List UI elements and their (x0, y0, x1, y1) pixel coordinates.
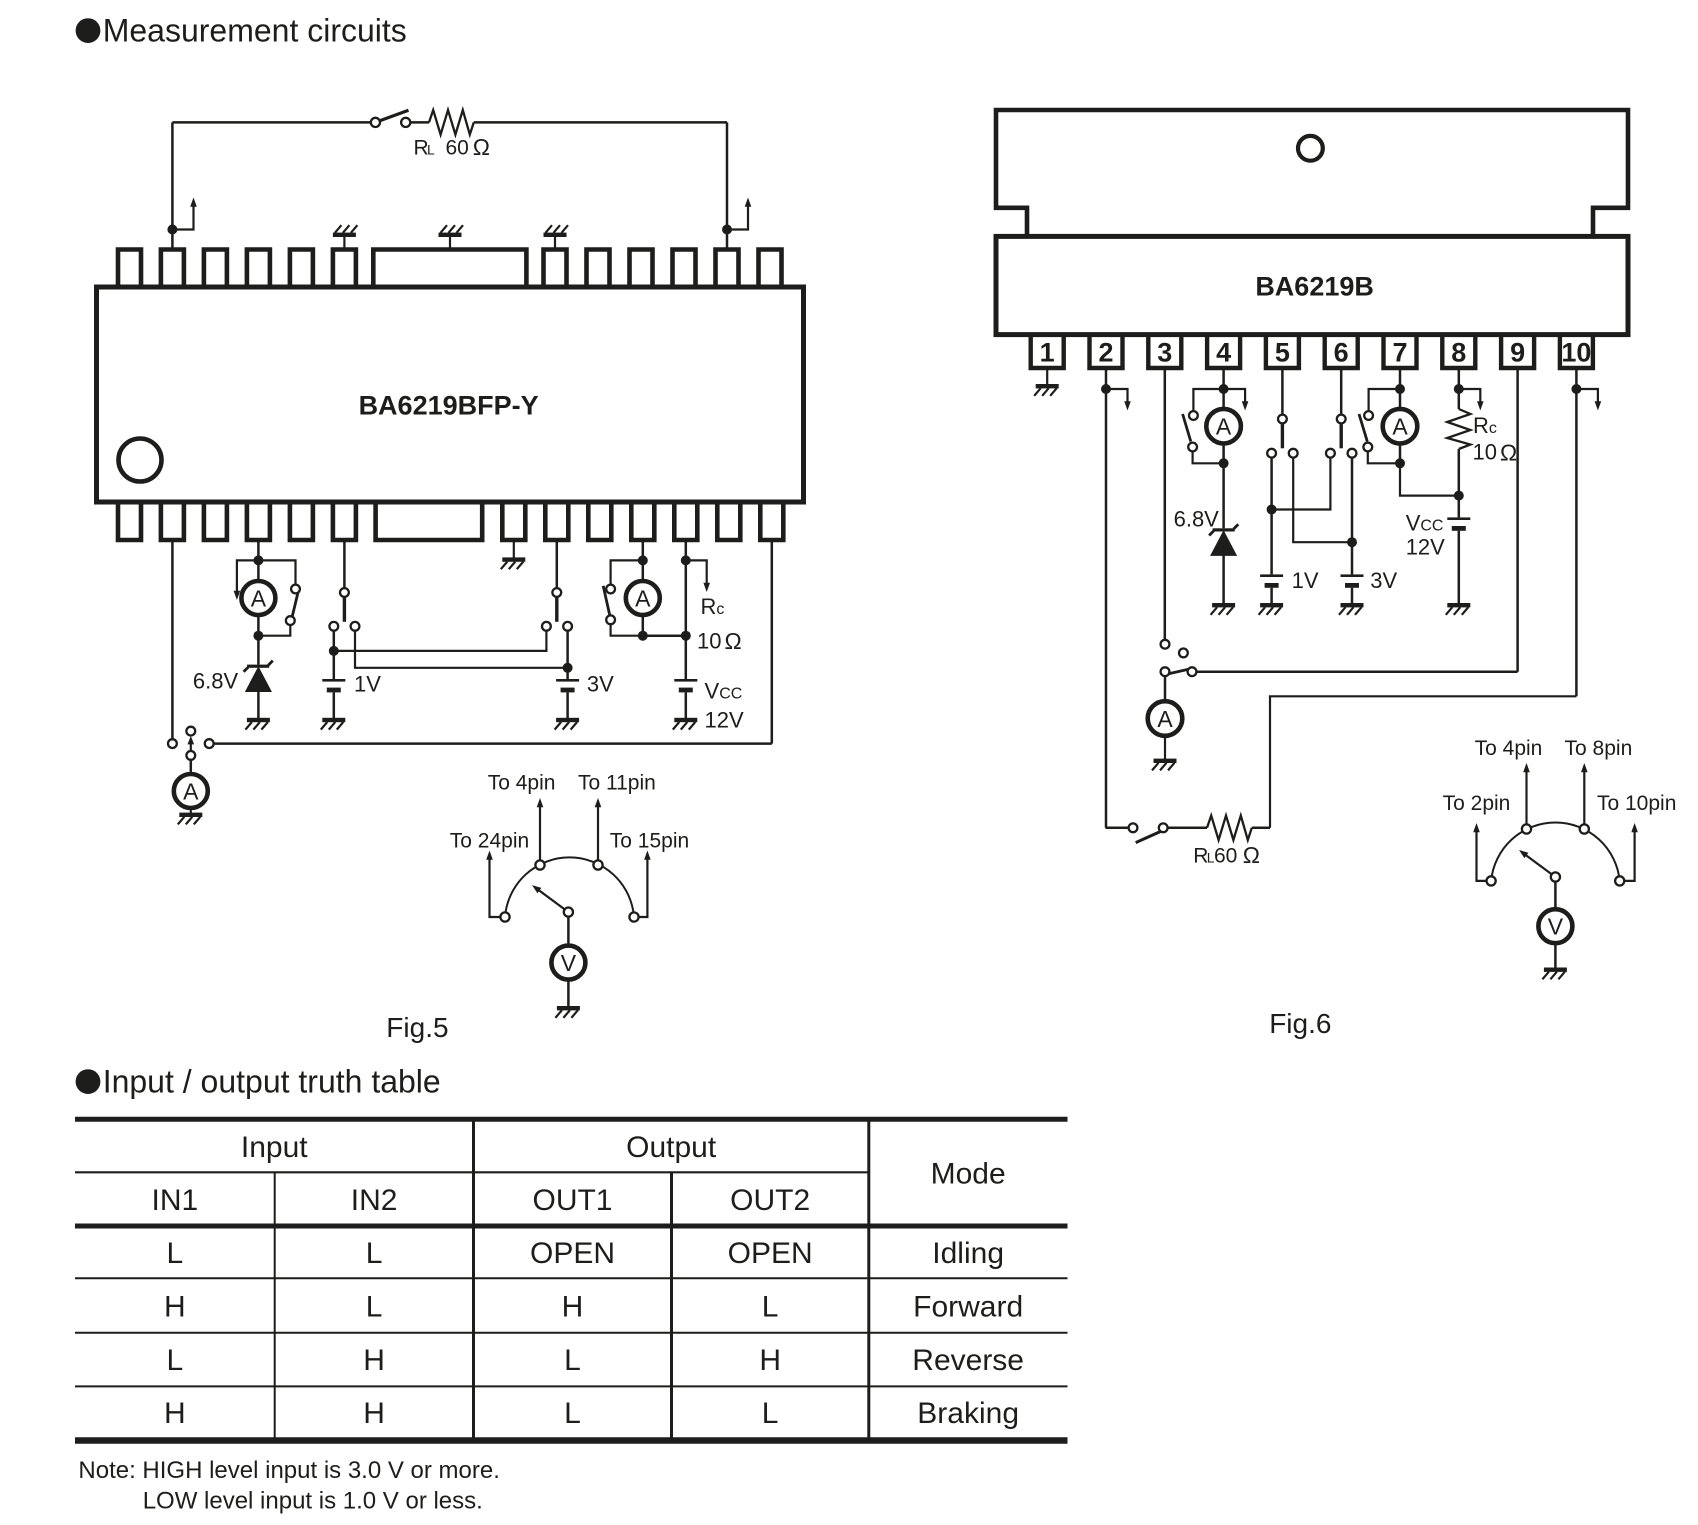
label To 15pin (610, 830, 689, 853)
svg-text:H: H (164, 1397, 186, 1430)
svg-text:1V: 1V (1292, 568, 1319, 593)
ground on U1 top pin 6 (333, 225, 358, 249)
label To 24pin (450, 830, 529, 853)
switch S5 (IN2 level select) (542, 588, 572, 631)
wire U1 pin 20 bottom (685, 540, 688, 560)
battery B5 3V (Fig.6) (1341, 542, 1364, 588)
ground below zener D2 (1211, 555, 1236, 615)
IC U2 BA6219B heatsink tab (996, 110, 1628, 236)
wire U2 pin 10 down (1575, 368, 1578, 696)
note line 2 (143, 1488, 483, 1515)
junction node pin 4 (1219, 384, 1229, 394)
truth table header Mode (931, 1158, 1006, 1191)
battery B2 3V (556, 668, 579, 693)
rotary selector SW2 arc (Fig.6) (1491, 823, 1620, 881)
svg-text:L: L (762, 1290, 779, 1323)
wire Rc to Vcc battery (1458, 449, 1461, 517)
wire long bottom rail (selector to pin 25) (214, 742, 772, 745)
section title: Input / output truth table (76, 1064, 441, 1100)
svg-text:L: L (366, 1237, 383, 1270)
ammeter A1 (174, 774, 208, 808)
label 10 ohm (Fig.5) (697, 628, 742, 654)
ground below battery B4 (1259, 588, 1284, 615)
svg-text:Output: Output (626, 1131, 717, 1164)
svg-text:L: L (564, 1344, 581, 1377)
battery B6 Vcc 12V (Fig.6) (1447, 517, 1470, 530)
svg-text:4: 4 (1216, 338, 1231, 368)
ground below voltmeter V1 (555, 980, 580, 1018)
current arrow at pin 4 (1224, 389, 1249, 411)
svg-text:3V: 3V (587, 672, 614, 697)
wire S8 left throw down (1270, 458, 1273, 510)
svg-text:IN2: IN2 (351, 1184, 398, 1217)
svg-text:1V: 1V (354, 672, 381, 697)
svg-text:Fig.5: Fig.5 (386, 1012, 448, 1043)
bypass switch S3 across A2 (258, 560, 300, 635)
SW1 contact to 4pin (535, 798, 544, 870)
truth table header OUT2 (730, 1184, 810, 1217)
junction node 1V rail (329, 646, 339, 656)
wire RL to pin 10 rail (1252, 827, 1270, 830)
svg-text:Input / output truth table: Input / output truth table (103, 1064, 441, 1100)
current arrow at pin 10 (1576, 389, 1601, 411)
truth table bottom border (75, 1437, 1068, 1444)
svg-text:BA6219BFP-Y: BA6219BFP-Y (359, 391, 539, 421)
U1 pin-1 index circle (119, 439, 162, 482)
U1 bottom pin 3 (204, 501, 227, 540)
wire SW2 wiper to voltmeter V2 (1554, 882, 1557, 910)
svg-text:A: A (251, 585, 267, 611)
wire U2 pin 3 down (1164, 368, 1167, 640)
wire U2 pin 5 down (1281, 368, 1284, 415)
junction node A3 bottom (638, 631, 648, 641)
svg-text:L: L (167, 1344, 184, 1377)
svg-text:Forward: Forward (913, 1290, 1023, 1323)
caption Fig.5 (386, 1012, 448, 1043)
SW2 contact to 8pin (1580, 763, 1589, 834)
ground below battery B5 (1339, 588, 1364, 615)
svg-text:L: L (427, 141, 435, 157)
truth table header Input (241, 1131, 308, 1164)
label To 10pin (1597, 792, 1676, 815)
svg-text:12V: 12V (705, 708, 744, 733)
SW2 contact to 4pin (1522, 763, 1531, 834)
label Vcc (Fig.6) (1406, 510, 1444, 535)
truth table column line IN1/IN2 (274, 1172, 276, 1440)
svg-text:Idling: Idling (932, 1237, 1004, 1270)
label To 4pin (Fig.6) (1475, 737, 1543, 760)
SW2 contact to 10pin (1615, 823, 1638, 886)
U1 bottom center tab pin (376, 501, 483, 540)
svg-text:To 11pin: To 11pin (578, 772, 656, 795)
wire U1 pin 16 bottom (556, 540, 559, 588)
junction node pin 2 (1101, 384, 1111, 394)
bypass switch S6 across A3 (603, 560, 643, 635)
svg-text:L: L (564, 1397, 581, 1430)
svg-text:Note: HIGH level input is 3.0: Note: HIGH level input is 3.0 V or more. (78, 1457, 500, 1484)
wire S12 to RL resistor (1168, 827, 1207, 830)
svg-text:6.8V: 6.8V (1174, 507, 1220, 532)
truth table row line 3 (75, 1385, 1068, 1387)
U1 top pin 5 (290, 250, 313, 289)
U1 bottom pin 9 (545, 501, 568, 540)
wire 1V node to S9 left throw (1276, 458, 1331, 510)
U2 pin box 4 (1207, 336, 1240, 368)
label RL 60ohm (Fig.6) (1193, 842, 1260, 868)
U2 pin box 9 (1501, 336, 1534, 368)
SW1 contact to 15pin (629, 851, 650, 922)
svg-text:To 24pin: To 24pin (450, 830, 529, 853)
svg-text:Rc: Rc (701, 594, 725, 619)
wire SW1 wiper to voltmeter V1 (567, 917, 570, 946)
wire U1 pin 25 bottom vertical (771, 540, 774, 744)
ground below zener D1 (245, 691, 270, 729)
wire U2 pin 8 down (1458, 368, 1461, 409)
svg-text:12V: 12V (1406, 534, 1445, 559)
current arrow Rc branch (686, 560, 710, 592)
svg-text:Rc: Rc (1473, 413, 1497, 438)
svg-text:Mode: Mode (931, 1158, 1006, 1191)
U1 top center tab pin (373, 250, 526, 289)
svg-text:3: 3 (1157, 338, 1172, 368)
U1 bottom pin 13 (717, 501, 740, 540)
label To 2pin (1443, 792, 1511, 815)
SW1 contact to 24pin (486, 851, 509, 922)
wire A3 bottom to Vcc rail (643, 634, 686, 637)
svg-text:To 4pin: To 4pin (488, 772, 556, 795)
svg-text:A: A (1157, 706, 1173, 732)
zener diode D2 6.8V (1209, 463, 1238, 555)
voltmeter V1 (551, 946, 585, 980)
truth table column line Input/Output (472, 1119, 475, 1440)
current-probe arrow at pin 2 top (172, 198, 196, 230)
wire U1 pin 4 bottom (257, 540, 260, 560)
ground on U2 pin 1 (1034, 368, 1059, 396)
junction node pin20/Rc (681, 555, 691, 565)
svg-text:1: 1 (1040, 338, 1055, 368)
label To 8pin (1565, 737, 1633, 760)
ground on U1 top tab (439, 225, 464, 249)
U2 pin box 2 (1090, 336, 1123, 368)
junction node at U1 pin 2 top (167, 225, 177, 235)
svg-text:OPEN: OPEN (530, 1237, 615, 1270)
zener diode D1 6.8V (244, 636, 273, 692)
U2 tab mounting hole (1298, 136, 1323, 161)
svg-text:A: A (183, 778, 199, 804)
svg-text:6.8V: 6.8V (193, 669, 239, 694)
svg-text:10: 10 (1561, 338, 1591, 368)
label 3V (Fig.6) (1370, 568, 1397, 593)
wire 1V node to 3V switch left throw (338, 631, 547, 651)
note line 1 (78, 1457, 500, 1484)
svg-text:6: 6 (1334, 338, 1349, 368)
U1 bottom pin 5 (290, 501, 313, 540)
label RL 60ohm (Fig.5) (414, 134, 491, 160)
svg-text:Ω: Ω (1500, 439, 1517, 465)
wire Fig.5 left rail vertical (171, 122, 174, 249)
U2 pin box 6 (1325, 336, 1358, 368)
wire S4 right throw to 3V node (355, 631, 564, 668)
truth table header Output (626, 1131, 717, 1164)
junction node Vcc rail / A3 (681, 631, 691, 641)
svg-text:To 15pin: To 15pin (610, 830, 689, 853)
switch S12 (load switch Fig.6) (1129, 823, 1168, 842)
junction node 3V rail (563, 663, 573, 673)
label 6.8V (D2) (1174, 507, 1220, 532)
SW1 wiper blade with arrow (532, 885, 573, 917)
ground below battery B6 (1446, 531, 1471, 615)
section title: Measurement circuits (76, 13, 407, 49)
U1 bottom pin 6 (333, 501, 356, 540)
ammeter A2 (241, 560, 275, 635)
label 3V (587, 672, 614, 697)
junction node A2 bottom (253, 631, 263, 641)
wire A5 bottom to Rc rail (1400, 463, 1459, 495)
label 1V (Fig.6) (1292, 568, 1319, 593)
svg-text:OUT1: OUT1 (532, 1184, 612, 1217)
current arrow at pin 2 (1106, 389, 1131, 411)
wire Fig.5 right rail vertical (726, 122, 729, 249)
junction node Rc/A5 (1454, 491, 1464, 501)
svg-text:H: H (164, 1290, 186, 1323)
wire S1 to RL (410, 121, 429, 124)
SW2 wiper blade with arrow (1519, 850, 1560, 882)
svg-text:H: H (562, 1290, 584, 1323)
resistor RL 60ohm (Fig.6) (1207, 816, 1252, 840)
svg-text:Ω: Ω (473, 134, 490, 160)
svg-text:Ω: Ω (725, 628, 742, 654)
U1 top pin 4 (247, 250, 270, 289)
wire S2 to ammeter A1 (190, 760, 193, 774)
svg-text:60: 60 (446, 136, 469, 159)
svg-text:10: 10 (1473, 440, 1497, 465)
U1 top pin 9 (587, 250, 610, 289)
label 1V (354, 672, 381, 697)
switch S4 (IN1 level select) (329, 588, 359, 631)
wire Fig.5 top rail left segment (172, 121, 371, 124)
bypass switch S7 across A4 (1183, 389, 1224, 463)
wire S4 left throw down (333, 631, 336, 651)
svg-text:3V: 3V (1370, 568, 1397, 593)
U2 pin box 10 (1560, 336, 1593, 368)
svg-text:Measurement circuits: Measurement circuits (103, 13, 407, 49)
resistor Rc 10ohm (Fig.6) (1447, 409, 1470, 449)
svg-text:A: A (635, 585, 651, 611)
truth table data row 1: L L OPEN OPEN Idling (167, 1237, 1005, 1270)
svg-text:Fig.6: Fig.6 (1269, 1008, 1331, 1039)
ammeter A5 (1383, 389, 1418, 463)
svg-text:Input: Input (241, 1131, 308, 1164)
U1 bottom pin 10 (588, 501, 611, 540)
ground below battery B3 (673, 692, 698, 729)
selector switch S2 (ammeter select) (168, 727, 214, 760)
wire S9 right throw down (1351, 458, 1354, 538)
svg-text:2: 2 (1098, 338, 1113, 368)
switch S8 (IN1 level select Fig.6) (1267, 415, 1297, 458)
label Rc (Fig.5) (701, 594, 725, 619)
wire S11 to ammeter A6 (1164, 676, 1167, 701)
ground below ammeter A1 (178, 808, 203, 824)
svg-text:L: L (167, 1237, 184, 1270)
ground below battery B1 (321, 692, 346, 729)
truth table column line Output/Mode (867, 1119, 870, 1440)
junction node pin 8 (1454, 384, 1464, 394)
U2 label BA6219B (1255, 272, 1374, 302)
IC U1 BA6219BFP-Y body (97, 287, 804, 502)
svg-text:Braking: Braking (917, 1397, 1019, 1430)
label To 4pin (Fig.5) (488, 772, 556, 795)
U1 top pin 1 (118, 250, 141, 289)
truth table header IN2 (351, 1184, 398, 1217)
svg-text:V: V (561, 950, 577, 976)
svg-text:H: H (759, 1344, 781, 1377)
junction node A4 bottom (1219, 458, 1229, 468)
current arrow into ammeter A2 (234, 560, 259, 600)
svg-text:60: 60 (1214, 844, 1237, 867)
U1 top pin 10 (630, 250, 653, 289)
ammeter A6 (1148, 701, 1183, 736)
junction node pin 7 (1395, 384, 1405, 394)
label Rc (Fig.6) (1473, 413, 1497, 438)
wire S8 right throw to 3V node (1293, 458, 1348, 543)
U2 pin box 8 (1442, 336, 1475, 368)
svg-text:8: 8 (1451, 338, 1466, 368)
current-probe arrow at pin 23 top (727, 198, 751, 230)
truth table row line 1 (75, 1277, 1068, 1279)
U1 top pin 6 (333, 250, 356, 289)
switch S9 (IN2 level select Fig.6) (1326, 415, 1356, 458)
U1 label BA6219BFP-Y (359, 391, 539, 421)
SW1 contact to 11pin (593, 798, 602, 870)
U1 bottom pin 11 (631, 501, 654, 540)
junction node at U1 pin 23 top (722, 225, 732, 235)
junction node 3V rail (Fig.6) (1347, 537, 1357, 547)
bypass switch S10 across A5 (1359, 389, 1400, 463)
ground on U1 top pin 8 (544, 225, 569, 249)
ammeter A3 (626, 560, 660, 635)
U1 bottom pin 4 (247, 501, 270, 540)
ground below voltmeter V2 (1542, 943, 1567, 979)
junction node 1V rail (Fig.6) (1267, 505, 1277, 515)
wire pin 9 rail to selector S11 (1196, 670, 1517, 673)
svg-text:OUT2: OUT2 (730, 1184, 810, 1217)
wire U2 pin 7 down (1399, 368, 1402, 389)
wire pin 10 rail to RL branch (1270, 696, 1576, 828)
junction node pin 10 (1571, 384, 1581, 394)
wire U1 pin 6 bottom (343, 540, 346, 588)
SW2 contact to 2pin (1473, 823, 1496, 886)
truth table data row 2: H L H L Forward (164, 1290, 1023, 1323)
wire U2 pin 2 down (1105, 368, 1108, 828)
svg-text:VCC: VCC (705, 679, 743, 704)
truth table header separator line (75, 1171, 869, 1173)
battery B3 Vcc 12V (674, 679, 697, 692)
svg-text:To 2pin: To 2pin (1443, 792, 1511, 815)
junction node pin4/A2 (253, 555, 263, 565)
U2 pin box 7 (1384, 336, 1417, 368)
wire S5 right throw down (566, 631, 569, 664)
U2 pin box 3 (1148, 336, 1181, 368)
wire U2 pin 6 down (1340, 368, 1343, 415)
svg-text:IN1: IN1 (152, 1184, 199, 1217)
truth table header IN1 (152, 1184, 199, 1217)
svg-text:A: A (1392, 414, 1408, 440)
svg-text:A: A (1216, 414, 1232, 440)
wire U1 pin 19 bottom (642, 540, 645, 560)
selector switch S11 (Fig.6) (1161, 640, 1197, 676)
ground below ammeter A6 (1152, 736, 1177, 771)
U1 bottom pin 1 (118, 501, 141, 540)
svg-text:L: L (366, 1290, 383, 1323)
U2 pin box 5 (1266, 336, 1299, 368)
current arrow at pin 8 (1459, 389, 1484, 411)
label 12V (705, 708, 744, 733)
U1 bottom pin 12 (674, 501, 697, 540)
U1 top pin 8 (544, 250, 567, 289)
ground on U1 pin 15 bottom (501, 540, 526, 569)
svg-text:LOW level input is 1.0 V or le: LOW level input is 1.0 V or less. (143, 1488, 483, 1515)
svg-text:BA6219B: BA6219B (1255, 272, 1374, 302)
svg-text:9: 9 (1510, 338, 1525, 368)
U1 top pin 11 (673, 250, 696, 289)
wire RL rail from pin 2 (1106, 827, 1129, 830)
U2 pin box 1 (1031, 336, 1064, 368)
truth table row line 2 (75, 1332, 1068, 1334)
wire Fig.5 top rail right segment (474, 121, 727, 124)
label 10 ohm (Fig.6) (1473, 439, 1518, 465)
svg-text:10: 10 (697, 629, 721, 654)
svg-text:H: H (363, 1397, 385, 1430)
ground below battery B2 (555, 692, 580, 729)
wire U2 pin 9 down (1516, 368, 1519, 672)
battery B1 1V (322, 651, 345, 692)
svg-text:H: H (363, 1344, 385, 1377)
U1 bottom pin 8 (502, 501, 525, 540)
battery B4 1V (Fig.6) (1260, 510, 1283, 588)
rotary selector SW1 arc (Fig.5) (505, 857, 634, 917)
label Vcc (705, 679, 743, 704)
ammeter A4 (1206, 389, 1241, 463)
wire U1 pin 2 bottom to selector (171, 540, 174, 739)
U1 bottom pin 2 (161, 501, 184, 540)
resistor RL 60ohm (Fig.5) (429, 110, 474, 135)
label 6.8V (D1) (193, 669, 239, 694)
svg-text:L: L (762, 1397, 779, 1430)
truth table header OUT1 (532, 1184, 612, 1217)
svg-text:7: 7 (1392, 338, 1407, 368)
truth table header bottom thick line (75, 1224, 1068, 1229)
svg-text:5: 5 (1275, 338, 1290, 368)
junction node pin19/A3 (638, 555, 648, 565)
junction node A5 bottom (1395, 458, 1405, 468)
U1 top pin 12 (716, 250, 739, 289)
truth table data row 4: H H L L Braking (164, 1397, 1019, 1430)
svg-text:To 8pin: To 8pin (1565, 737, 1633, 760)
truth table data row 3: L H L H Reverse (167, 1344, 1025, 1377)
svg-text:Ω: Ω (1243, 842, 1260, 868)
U1 top pin 2 (161, 250, 184, 289)
U1 bottom pin 14 (760, 501, 783, 540)
svg-text:Reverse: Reverse (912, 1344, 1024, 1377)
wire Vcc rail vertical (685, 560, 688, 679)
svg-text:VCC: VCC (1406, 510, 1444, 535)
IC U2 BA6219B body (996, 236, 1628, 334)
svg-text:V: V (1548, 914, 1564, 940)
label 12V (Fig.6) (1406, 534, 1445, 559)
svg-text:To 10pin: To 10pin (1597, 792, 1676, 815)
switch S1 (load switch) (371, 110, 411, 127)
U1 top pin 13 (759, 250, 782, 289)
